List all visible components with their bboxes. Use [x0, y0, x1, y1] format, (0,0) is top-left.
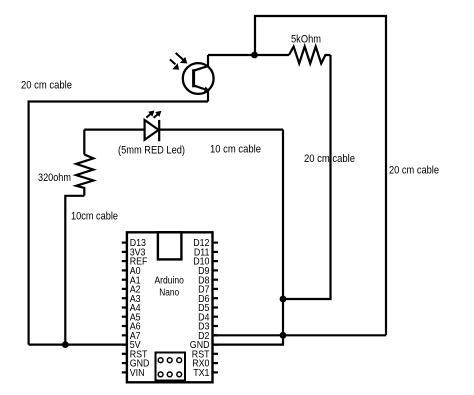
wire to 5V pin — [29, 344, 127, 346]
junction node A — [251, 52, 258, 59]
junction LED/5kOhm — [280, 296, 287, 303]
wire 5kOhm right lead down (20 cm cable) — [283, 55, 331, 299]
wire LED to cathode riser — [159, 129, 283, 131]
phototransistor Q1 light arrow 1 — [176, 53, 188, 64]
phototransistor Q1 collector diagonal — [194, 66, 208, 71]
resistor 5kOhm — [289, 47, 331, 64]
svg-text:20 cm cable: 20 cm cable — [389, 165, 439, 177]
wire 320ohm top lead — [83, 130, 85, 155]
junction 320ohm/5V — [62, 341, 69, 348]
Arduino right pin stubs — [212, 243, 218, 373]
svg-text:VIN: VIN — [130, 367, 145, 379]
svg-text:10 cm cable: 10 cm cable — [210, 144, 261, 156]
LED D1 emission arrow 2 — [154, 111, 162, 118]
wire top horizontal — [255, 16, 386, 335]
resistor 320ohm — [76, 155, 93, 196]
wire LED cathode down to D2 net — [282, 130, 284, 336]
wire emitter horizontal (20 cm cable) — [29, 102, 208, 345]
phototransistor Q1 light arrow 2 — [170, 59, 179, 69]
svg-text:Arduino: Arduino — [154, 275, 184, 287]
wire LED anode left — [84, 129, 144, 131]
svg-text:(5mm RED Led): (5mm RED Led) — [118, 145, 185, 157]
wire collector to node A and 5kOhm left lead — [208, 54, 289, 56]
phototransistor Q1 base bar — [192, 69, 195, 87]
Arduino Nano ICSP header — [156, 353, 186, 381]
svg-text:20 cm cable: 20 cm cable — [21, 80, 72, 92]
svg-text:TX1: TX1 — [193, 367, 209, 379]
Arduino right pin labels — [190, 237, 210, 379]
svg-text:20 cm cable: 20 cm cable — [304, 153, 355, 165]
ICSP pin circles — [158, 358, 181, 377]
phototransistor Q1 emitter wire — [207, 91, 209, 102]
LED D1 triangle — [145, 120, 159, 140]
wire D2 pin to right riser — [213, 334, 387, 336]
svg-text:Nano: Nano — [159, 286, 179, 298]
phototransistor Q1 collector wire — [207, 55, 209, 67]
svg-text:320ohm: 320ohm — [38, 172, 71, 184]
svg-text:5kOhm: 5kOhm — [291, 34, 321, 46]
phototransistor Q1 body — [183, 63, 214, 94]
wire GND pin jog — [213, 335, 284, 344]
Arduino Nano U1 body — [127, 232, 213, 382]
wire 320ohm bottom lead to left riser (10cm cable) — [65, 196, 84, 345]
junction D2 net — [280, 332, 287, 339]
Arduino left pin labels — [130, 237, 150, 379]
svg-text:10cm cable: 10cm cable — [71, 211, 118, 223]
LED D1 emission arrow 1 — [146, 111, 154, 118]
phototransistor Q1 emitter diagonal with arrow — [194, 86, 206, 90]
Arduino left pin stubs — [122, 243, 128, 373]
LED D1 cathode bar — [158, 120, 160, 141]
Arduino Nano USB connector — [158, 232, 182, 259]
